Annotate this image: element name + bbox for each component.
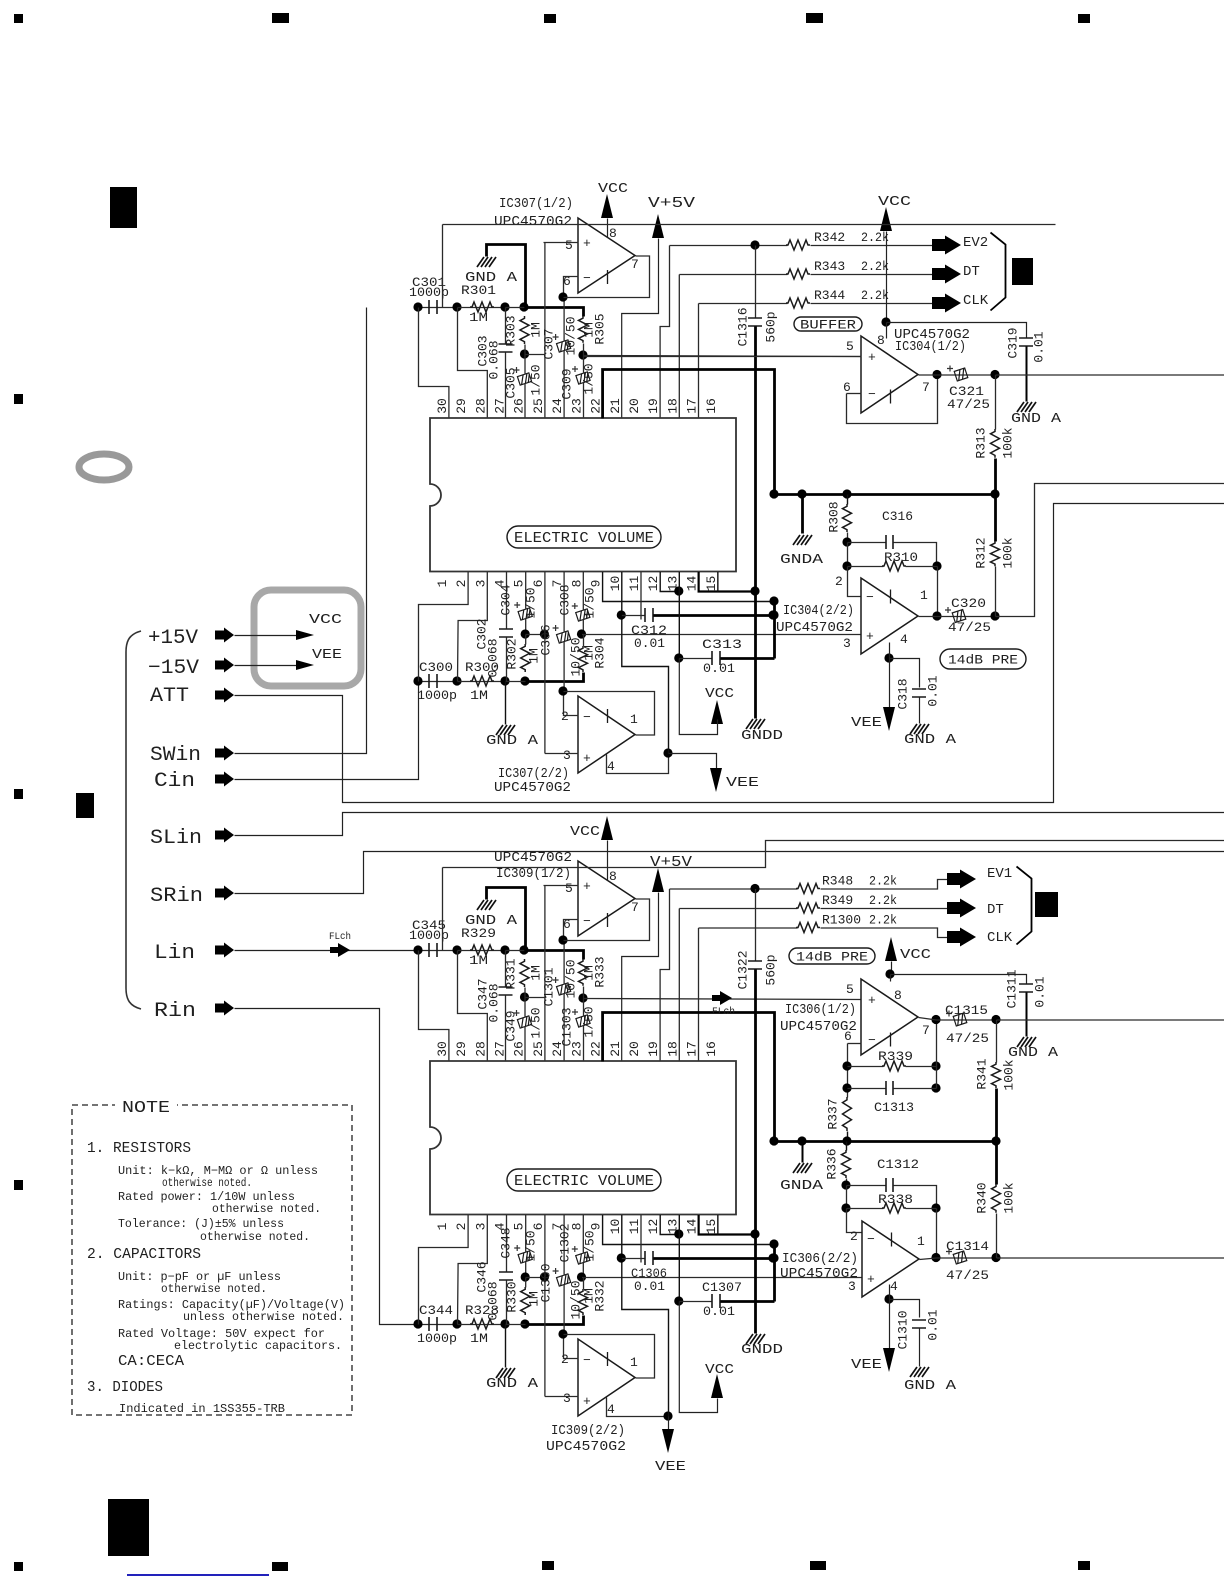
svg-text:Cin: Cin	[154, 770, 195, 793]
pin 2 wire	[564, 692, 579, 716]
svg-text:C1311: C1311	[1005, 969, 1020, 1008]
capacitor C1301 10/50 (electrolytic)	[563, 941, 565, 984]
pin 4 node IC304(2/2)	[884, 653, 893, 662]
svg-text:Indicated in 1SS355-TRB: Indicated in 1SS355-TRB	[119, 1402, 285, 1416]
resistor R332 1M (vertical)	[579, 1289, 588, 1315]
input brace	[126, 631, 141, 1009]
registration mark top-left	[14, 14, 23, 23]
registration mark bottom-left	[14, 1562, 23, 1571]
svg-text:−: −	[868, 1033, 876, 1048]
pin 2 node	[558, 686, 567, 695]
svg-text:2: 2	[561, 1352, 569, 1367]
svg-text:Lin: Lin	[154, 942, 195, 965]
op-amp IC307 (1/2)	[578, 218, 635, 293]
svg-text:R337: R337	[826, 1098, 841, 1129]
wire R row2 to pin 18	[678, 275, 680, 419]
VEE node opamp2	[663, 1411, 672, 1420]
svg-text:−: −	[583, 710, 591, 725]
svg-text:R313: R313	[974, 427, 989, 458]
svg-text:12: 12	[646, 576, 661, 592]
svg-text:3: 3	[843, 636, 851, 651]
resistor R303 1M (vertical)	[520, 316, 529, 344]
svg-text:2.2k: 2.2k	[861, 288, 889, 303]
svg-text:R1300: R1300	[822, 913, 861, 928]
pin 2 node	[558, 1329, 567, 1338]
registration mark top x=1078	[1078, 14, 1090, 23]
svg-text:100k: 100k	[1001, 427, 1016, 458]
pin 8 stub	[890, 975, 892, 982]
svg-text:C316: C316	[882, 509, 913, 524]
svg-text:+15V: +15V	[148, 627, 198, 650]
resistor R348 2.2k	[670, 888, 798, 890]
op-amp IC309 (1/2)	[578, 861, 635, 936]
svg-text:7: 7	[922, 380, 930, 395]
svg-text:4: 4	[890, 1279, 898, 1294]
svg-text:GND A: GND A	[486, 733, 539, 749]
svg-text:0.068: 0.068	[486, 638, 501, 677]
svg-text:C1322: C1322	[736, 950, 751, 989]
ground GND A (C1310)	[910, 1367, 929, 1377]
svg-text:0.01: 0.01	[1032, 331, 1047, 362]
svg-text:VEE: VEE	[655, 1459, 686, 1475]
svg-text:12: 12	[646, 1219, 661, 1235]
svg-text:GNDA: GNDA	[780, 1178, 824, 1194]
node row1 C1322	[750, 884, 759, 893]
svg-text:1: 1	[630, 712, 638, 727]
VCC arrow near connectors	[885, 937, 897, 961]
svg-text:10: 10	[608, 576, 623, 592]
registration mark left y=394	[14, 394, 23, 404]
jog node to pin 25 riser	[525, 997, 545, 999]
wire feedback to output	[936, 1067, 938, 1089]
thick wire to R305	[525, 308, 584, 317]
V+5V wire to pin 21	[622, 239, 659, 419]
svg-text:SLin: SLin	[150, 827, 202, 850]
svg-text:C308: C308	[558, 584, 573, 615]
resistor R331 1M (vertical)	[520, 959, 529, 987]
op-amp IC306(2/2)	[862, 1221, 919, 1297]
svg-text:1M: 1M	[470, 1331, 488, 1346]
svg-text:0.01: 0.01	[703, 1304, 735, 1319]
svg-text:560p: 560p	[764, 954, 779, 985]
capacitor C321 47/25 (electrolytic)	[938, 374, 996, 376]
wire pin 3 jog	[458, 1215, 488, 1325]
svg-text:1000p: 1000p	[417, 1331, 457, 1346]
svg-text:−: −	[583, 1353, 591, 1368]
IC electric volume 2 ELECTRIC VOLUME	[430, 1061, 736, 1215]
svg-text:2.2k: 2.2k	[869, 913, 897, 928]
wire pin 3 jog	[458, 572, 488, 682]
resistor R340 100k (vertical)	[995, 1142, 998, 1185]
wire ATT	[235, 504, 1224, 803]
inner tick	[607, 270, 609, 284]
wire C1311 to ground	[1026, 993, 1028, 1037]
pin 12/13 node	[674, 586, 683, 595]
svg-text:100k: 100k	[1002, 1182, 1017, 1213]
node R331 bottom	[520, 992, 529, 1001]
VCC arrow in supply box	[296, 630, 314, 640]
capacitor C346 0.068 (vertical)	[506, 1215, 508, 1273]
pin 6 riser to opamp2 +in	[544, 572, 546, 754]
svg-text:R310: R310	[884, 550, 918, 565]
wire pin 2 jog to C344	[419, 1215, 469, 1325]
node after C301	[413, 302, 422, 311]
svg-text:R305: R305	[593, 313, 608, 344]
svg-text:5: 5	[846, 982, 854, 997]
svg-text:DT: DT	[987, 902, 1004, 918]
stadium label 14dB PRE	[940, 649, 1026, 669]
pin 12 wire	[660, 572, 679, 592]
svg-text:1/50: 1/50	[582, 1006, 597, 1037]
svg-text:25: 25	[531, 398, 546, 414]
svg-text:24: 24	[550, 398, 565, 414]
FLch arrow on preamp input	[712, 991, 732, 1005]
op-amp IC304(1/2) buffer	[861, 336, 918, 413]
op-amp IC309 (2/2)	[578, 1339, 635, 1416]
resistor R338	[847, 1208, 884, 1210]
svg-text:C344: C344	[419, 1303, 453, 1318]
svg-text:18: 18	[665, 1041, 680, 1057]
node R300 output	[500, 676, 509, 685]
resistor R344 2.2k	[699, 303, 788, 305]
svg-text:+: +	[583, 236, 591, 251]
connector bracket	[991, 233, 1006, 311]
pin 3 wire from pin6 riser	[545, 753, 579, 755]
capacitor C1313	[842, 1083, 851, 1092]
svg-text:C1315: C1315	[945, 1003, 988, 1018]
svg-text:0.068: 0.068	[487, 340, 502, 379]
svg-text:4: 4	[607, 1402, 615, 1417]
svg-text:C309: C309	[560, 368, 575, 399]
capacitor C347 0.068 (vertical)	[505, 951, 507, 988]
pin 6 wire	[564, 920, 579, 941]
capacitor C305 1/50 (electrolytic)	[524, 355, 526, 374]
svg-text:16: 16	[704, 398, 719, 414]
output node IC304(1/2)	[932, 370, 941, 379]
node C321 right	[990, 370, 999, 379]
svg-text:UPC4570G2: UPC4570G2	[494, 214, 572, 230]
thick wire to R333	[525, 951, 584, 960]
svg-text:2.2k: 2.2k	[869, 874, 897, 889]
svg-text:C305: C305	[504, 367, 519, 398]
svg-text:C1302: C1302	[558, 1223, 573, 1262]
svg-text:unless otherwise noted.: unless otherwise noted.	[183, 1310, 344, 1324]
svg-text:−: −	[868, 387, 876, 402]
svg-text:VEE: VEE	[312, 647, 342, 663]
svg-text:IC309(1/2): IC309(1/2)	[496, 866, 571, 882]
feedback loop IC304(1/2)	[847, 393, 862, 395]
svg-text:10: 10	[608, 1219, 623, 1235]
svg-text:R349: R349	[822, 893, 853, 908]
pin 10 wire	[622, 572, 669, 754]
ground stub GND A (lower)	[505, 1325, 507, 1368]
capacitor C1310 0.01 (vertical)	[912, 1320, 926, 1328]
svg-text:V+5V: V+5V	[648, 195, 695, 212]
svg-text:GND A: GND A	[486, 1376, 539, 1392]
svg-text:C1310: C1310	[896, 1310, 911, 1349]
svg-text:UPC4570G2: UPC4570G2	[780, 1266, 858, 1282]
svg-text:R344: R344	[814, 288, 845, 303]
svg-text:DT: DT	[963, 264, 980, 280]
svg-text:47/25: 47/25	[946, 1268, 989, 1283]
svg-text:1M: 1M	[469, 953, 488, 968]
node R308 bottom	[847, 533, 849, 543]
pin 6 riser to opamp2 +in	[544, 1215, 546, 1397]
long wire R305 to preamp +input	[584, 356, 862, 357]
svg-text:47/25: 47/25	[946, 1031, 989, 1046]
svg-text:15: 15	[704, 1219, 719, 1235]
wire node to pin 28	[458, 308, 488, 419]
pin 4 wire to VEE net	[607, 754, 669, 774]
svg-text:UPC4570G2: UPC4570G2	[494, 850, 572, 866]
svg-text:FLch: FLch	[329, 931, 351, 943]
pin 2 wire IC304(2/2)	[848, 567, 862, 597]
pin 14 wire to GNDD	[699, 572, 756, 592]
svg-text:27: 27	[493, 1041, 508, 1057]
svg-text:8: 8	[609, 869, 617, 884]
pin 11 stub	[640, 572, 642, 620]
resistor R308 (vertical)	[843, 504, 852, 532]
svg-text:23: 23	[569, 1041, 584, 1057]
resistor R328 1M	[458, 1324, 506, 1326]
wire Lin	[235, 950, 420, 952]
wire output	[919, 374, 938, 376]
svg-text:C1312: C1312	[877, 1157, 919, 1172]
svg-text:GND A: GND A	[1011, 411, 1062, 427]
wire opamp +in to pin 25	[544, 243, 546, 419]
feedback output to pin 2	[564, 692, 655, 736]
node pin5 col	[521, 629, 530, 638]
inner tick opamp2	[607, 1352, 609, 1366]
svg-text:R312: R312	[974, 537, 989, 568]
pin 10 node at C312 row	[617, 1253, 626, 1262]
svg-text:26: 26	[512, 1041, 527, 1057]
large black block near EV2 connector	[1012, 258, 1033, 285]
svg-text:V+5V: V+5V	[650, 854, 692, 871]
bus node C312 row	[768, 1253, 777, 1262]
capacitor C349 1/50 (electrolytic)	[524, 998, 526, 1017]
svg-text:27: 27	[493, 398, 508, 414]
bus node pin9	[769, 1239, 778, 1248]
wire Cin	[235, 683, 419, 780]
svg-text:0.068: 0.068	[487, 983, 502, 1022]
capacitor C309 1/50 (electrolytic)	[583, 356, 585, 373]
pin 12 wire	[660, 1215, 679, 1235]
svg-text:C1301: C1301	[542, 967, 557, 1006]
svg-text:560p: 560p	[764, 311, 779, 342]
svg-text:5: 5	[565, 881, 573, 896]
svg-text:0.068: 0.068	[486, 1281, 501, 1320]
ground GND A (upper)	[477, 257, 496, 267]
wire Rin	[235, 1009, 419, 1325]
svg-text:otherwise noted.: otherwise noted.	[212, 1202, 321, 1216]
registration mark top x=806	[806, 13, 823, 23]
capacitor C1312	[847, 1185, 887, 1187]
svg-text:1/50: 1/50	[583, 587, 598, 618]
ground GND A (upper)	[477, 900, 496, 910]
ground GND A (C318)	[910, 724, 929, 734]
VEE arrow in supply box	[296, 660, 314, 670]
svg-text:C304: C304	[499, 584, 514, 615]
wire R338 node to output	[936, 1209, 938, 1259]
capacitor C312 0.01	[622, 615, 646, 617]
output node IC306(2/2)	[931, 1253, 940, 1262]
node C1314 right	[991, 1253, 1000, 1262]
svg-text:R332: R332	[593, 1280, 608, 1311]
svg-text:2: 2	[454, 580, 469, 588]
wire C319 to ground	[1026, 347, 1028, 402]
ground GNDD	[754, 592, 757, 719]
node R301 output	[500, 302, 509, 311]
inner tick IC304(1/2)	[890, 390, 892, 404]
wire pin4 to C318	[890, 643, 920, 688]
wire -15V to VEE	[235, 665, 297, 667]
svg-text:15: 15	[704, 576, 719, 592]
svg-text:R341: R341	[975, 1058, 990, 1089]
svg-text:VCC: VCC	[705, 686, 734, 702]
pin 22 wire to reference node	[603, 370, 775, 495]
node pin5 col	[521, 1272, 530, 1281]
svg-text:−: −	[867, 1232, 875, 1247]
svg-text:2: 2	[561, 709, 569, 724]
pin 2 wire	[564, 1335, 579, 1359]
capacitor C1314 47/25 (electrolytic)	[937, 1257, 997, 1259]
svg-text:C306: C306	[539, 624, 554, 655]
svg-text:C319: C319	[1006, 327, 1021, 358]
wire C1322 down to GNDD net	[754, 970, 757, 1235]
svg-text:29: 29	[454, 1041, 469, 1057]
svg-text:1. RESISTORS: 1. RESISTORS	[87, 1140, 191, 1157]
svg-text:VCC: VCC	[900, 947, 931, 963]
svg-text:1/50: 1/50	[524, 587, 539, 618]
svg-text:4: 4	[607, 759, 615, 774]
capacitor C1315 47/25 (electrolytic)	[937, 1019, 997, 1021]
wire node to pin 28	[458, 951, 488, 1062]
resistor R304 1M (vertical)	[579, 646, 588, 672]
reference node wire (lower)	[775, 1140, 997, 1143]
pin 3 wire from pin6 riser	[545, 1396, 579, 1398]
svg-text:+: +	[583, 1394, 591, 1409]
capacitor C1302 1/50 (electrolytic)	[582, 1215, 584, 1253]
svg-text:C1313: C1313	[874, 1100, 914, 1115]
svg-text:ELECTRIC VOLUME: ELECTRIC VOLUME	[514, 531, 654, 547]
VEE arrow opamp2	[669, 754, 717, 773]
svg-text:1: 1	[435, 1222, 450, 1230]
svg-text:IC306(2/2): IC306(2/2)	[782, 1251, 858, 1267]
svg-text:R303: R303	[504, 315, 519, 346]
bus node C312 row	[768, 610, 777, 619]
resistor R330 1M (vertical)	[521, 1287, 530, 1315]
svg-text:1: 1	[630, 1355, 638, 1370]
svg-text:CLK: CLK	[987, 930, 1013, 946]
pin 5 input wire	[584, 356, 862, 358]
connector CLK	[932, 294, 961, 313]
wire R row1 to pin 19	[660, 246, 669, 419]
ground GND A (C319)	[1017, 402, 1036, 412]
svg-text:R308: R308	[827, 501, 842, 532]
black block near EV1 connector	[1035, 892, 1058, 917]
capacitor C300 1000p	[419, 681, 458, 683]
capacitor C1303 1/50 (electrolytic)	[583, 999, 585, 1016]
feedback node pin 6 IC306(1/2)	[848, 1043, 862, 1045]
svg-text:R338: R338	[878, 1192, 913, 1207]
svg-text:R343: R343	[814, 259, 845, 274]
svg-text:21: 21	[608, 1041, 623, 1057]
svg-text:3: 3	[473, 580, 488, 588]
wire R313 to node	[994, 459, 997, 495]
svg-text:5: 5	[846, 339, 854, 354]
node R332 top	[577, 1272, 586, 1281]
svg-text:−15V: −15V	[148, 657, 199, 680]
svg-text:7: 7	[631, 900, 639, 915]
capacitor C316	[848, 542, 887, 544]
pin 9 wire to right bus	[603, 1215, 775, 1245]
svg-text:UPC4570G2: UPC4570G2	[776, 620, 853, 636]
svg-text:6: 6	[531, 580, 546, 588]
resistor R339	[848, 1066, 884, 1068]
svg-text:7: 7	[631, 257, 639, 272]
svg-text:1: 1	[917, 1234, 925, 1249]
svg-text:R348: R348	[822, 874, 853, 889]
svg-text:EV2: EV2	[963, 235, 988, 251]
node C320 right	[990, 611, 999, 620]
svg-text:+: +	[868, 993, 876, 1008]
capacitor C345 1000p	[419, 950, 458, 952]
svg-text:100k: 100k	[1002, 1059, 1017, 1090]
capacitor C304 1/50 (electrolytic)	[525, 572, 527, 609]
svg-text:6: 6	[844, 1029, 852, 1044]
svg-text:EV1: EV1	[987, 866, 1012, 882]
wire R out to page edge	[997, 1257, 1224, 1259]
svg-text:3: 3	[563, 748, 571, 763]
node R329 output	[500, 945, 509, 954]
resistor R312 100k (vertical)	[994, 495, 997, 542]
svg-text:14: 14	[685, 576, 700, 592]
svg-text:14: 14	[685, 1219, 700, 1235]
svg-text:R339: R339	[878, 1049, 913, 1064]
svg-text:SWin: SWin	[150, 744, 201, 767]
pin 6 node	[558, 292, 567, 301]
svg-text:UPC4570G2: UPC4570G2	[494, 780, 571, 796]
capacitor C306 10/50 (electrolytic)	[563, 572, 565, 632]
stadium label BUFFER	[794, 317, 862, 331]
resistor R310	[848, 566, 884, 568]
svg-text:VCC: VCC	[570, 824, 600, 840]
node R328 output	[500, 1319, 509, 1328]
thick wire to R332	[526, 1316, 584, 1325]
svg-text:0.01: 0.01	[634, 1279, 665, 1294]
capacitor C303 0.068 (vertical)	[505, 308, 507, 345]
svg-text:FLch: FLch	[712, 1006, 735, 1018]
black block near SRin	[76, 793, 94, 818]
inner tick IC304(2/2)	[890, 590, 892, 604]
svg-text:R331: R331	[504, 958, 519, 989]
svg-text:VEE: VEE	[851, 715, 882, 731]
svg-text:C1316: C1316	[736, 307, 751, 346]
capacitor C307 10/50 (electrolytic)	[563, 298, 565, 341]
feedback wire output to pin 6	[564, 256, 650, 298]
svg-text:IC306(1/2): IC306(1/2)	[785, 1002, 856, 1018]
svg-text:R333: R333	[593, 956, 608, 987]
wire opamp +in to pin 25	[544, 886, 546, 1062]
registration mark bottom x=810	[810, 1561, 826, 1570]
node R333 bottom	[578, 993, 587, 1002]
svg-text:IC307(1/2): IC307(1/2)	[499, 196, 573, 212]
svg-text:GNDD: GNDD	[741, 1342, 783, 1358]
svg-text:29: 29	[454, 398, 469, 414]
svg-text:10/50: 10/50	[564, 959, 579, 998]
resistor R336 (vertical)	[842, 1150, 851, 1178]
